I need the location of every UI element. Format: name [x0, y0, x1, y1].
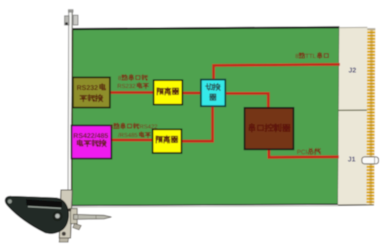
svg-text:J2: J2 [349, 68, 357, 75]
svg-text:RS232: RS232 [117, 83, 136, 90]
svg-text:PCI: PCI [297, 149, 308, 156]
svg-text:RS232: RS232 [77, 85, 99, 92]
svg-text:RS422: RS422 [140, 124, 158, 131]
svg-text:RS422/485: RS422/485 [73, 132, 108, 140]
svg-text:J1: J1 [348, 156, 356, 163]
svg-text:/RS485: /RS485 [118, 132, 138, 139]
svg-text:TTL: TTL [305, 53, 316, 60]
